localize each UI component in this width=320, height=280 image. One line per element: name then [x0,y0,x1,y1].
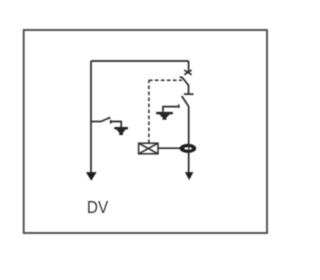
svg-text:DV: DV [87,197,109,217]
